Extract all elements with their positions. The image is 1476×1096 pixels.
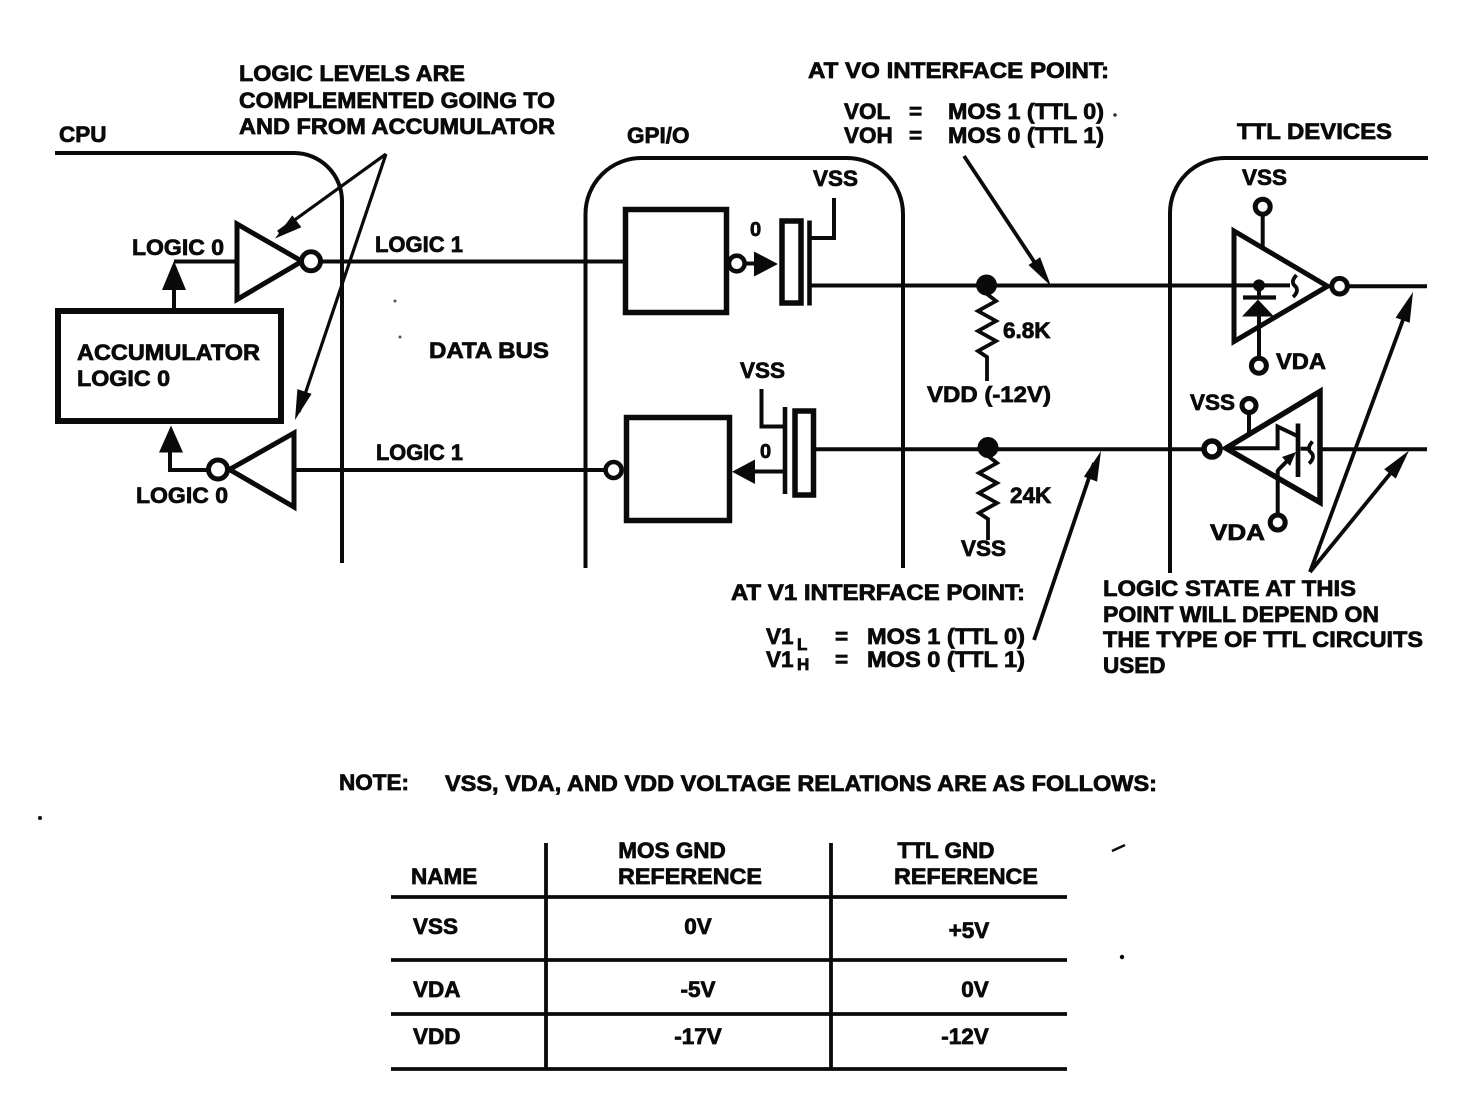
svg-text:THE TYPE OF TTL CIRCUITS: THE TYPE OF TTL CIRCUITS <box>1103 627 1423 652</box>
svg-text:TTL DEVICES: TTL DEVICES <box>1237 119 1392 144</box>
svg-text:CPU: CPU <box>59 122 107 147</box>
svg-text:LOGIC 0: LOGIC 0 <box>77 366 170 391</box>
svg-text:=: = <box>835 624 848 649</box>
svg-text:=: = <box>835 647 848 672</box>
svg-text:VSS: VSS <box>1242 165 1287 190</box>
svg-text:VOL: VOL <box>844 99 891 124</box>
svg-text:REFERENCE: REFERENCE <box>894 864 1038 889</box>
svg-text:COMPLEMENTED GOING TO: COMPLEMENTED GOING TO <box>239 88 555 113</box>
svg-text:+5V: +5V <box>949 918 990 943</box>
svg-text:H: H <box>797 655 809 674</box>
svg-text:REFERENCE: REFERENCE <box>618 864 762 889</box>
svg-text:TTL GND: TTL GND <box>897 838 994 863</box>
svg-text:LOGIC STATE AT THIS: LOGIC STATE AT THIS <box>1103 576 1356 601</box>
svg-text:VDA: VDA <box>1210 520 1265 545</box>
svg-text:MOS 1 (TTL 0): MOS 1 (TTL 0) <box>948 99 1104 124</box>
svg-text:LOGIC 1: LOGIC 1 <box>375 232 463 257</box>
svg-text:VSS: VSS <box>1190 390 1235 415</box>
svg-text:VDA: VDA <box>413 977 461 1002</box>
svg-text:USED: USED <box>1103 653 1166 678</box>
svg-text:MOS GND: MOS GND <box>618 838 726 863</box>
svg-text:VDA: VDA <box>1276 349 1326 374</box>
svg-text:MOS 0 (TTL 1): MOS 0 (TTL 1) <box>948 123 1104 148</box>
svg-text:DATA BUS: DATA BUS <box>429 338 549 363</box>
svg-text:V1: V1 <box>766 647 794 672</box>
svg-text:0: 0 <box>750 219 761 241</box>
svg-text:VSS: VSS <box>813 166 858 191</box>
svg-text:L: L <box>797 635 807 654</box>
svg-text:-17V: -17V <box>674 1024 722 1049</box>
svg-text:VDD (-12V): VDD (-12V) <box>927 382 1051 407</box>
svg-text:AT V1 INTERFACE POINT:: AT V1 INTERFACE POINT: <box>731 580 1025 605</box>
svg-text:V1: V1 <box>766 624 794 649</box>
svg-text:AT VO INTERFACE POINT:: AT VO INTERFACE POINT: <box>808 58 1109 83</box>
svg-text:0: 0 <box>760 441 771 463</box>
svg-text:NAME: NAME <box>411 864 477 889</box>
svg-text:MOS 1 (TTL 0): MOS 1 (TTL 0) <box>867 624 1025 649</box>
svg-text:LOGIC LEVELS ARE: LOGIC LEVELS ARE <box>239 61 465 86</box>
svg-text:VSS, VDA, AND VDD VOLTAGE RELA: VSS, VDA, AND VDD VOLTAGE RELATIONS ARE … <box>445 771 1157 796</box>
svg-text:24K: 24K <box>1010 483 1052 508</box>
svg-text:GPI/O: GPI/O <box>627 123 690 148</box>
svg-text:VDD: VDD <box>413 1024 461 1049</box>
svg-text:LOGIC 1: LOGIC 1 <box>376 440 463 465</box>
svg-text:ACCUMULATOR: ACCUMULATOR <box>77 340 260 365</box>
svg-text:VSS: VSS <box>413 914 458 939</box>
svg-text:POINT WILL DEPEND ON: POINT WILL DEPEND ON <box>1103 602 1379 627</box>
svg-text:=: = <box>909 99 922 124</box>
svg-text:VSS: VSS <box>961 536 1006 561</box>
svg-text:=: = <box>909 123 922 148</box>
svg-text:NOTE:: NOTE: <box>339 770 409 795</box>
svg-text:0V: 0V <box>961 977 989 1002</box>
svg-text:LOGIC 0: LOGIC 0 <box>136 483 228 508</box>
svg-text:6.8K: 6.8K <box>1003 318 1051 343</box>
svg-text:0V: 0V <box>684 914 712 939</box>
svg-text:-12V: -12V <box>941 1024 989 1049</box>
svg-text:LOGIC 0: LOGIC 0 <box>132 235 224 260</box>
svg-text:-5V: -5V <box>680 977 715 1002</box>
svg-text:AND FROM ACCUMULATOR: AND FROM ACCUMULATOR <box>239 114 555 139</box>
svg-text:MOS 0 (TTL 1): MOS 0 (TTL 1) <box>867 647 1025 672</box>
svg-text:VOH: VOH <box>844 123 893 148</box>
svg-text:VSS: VSS <box>740 358 785 383</box>
